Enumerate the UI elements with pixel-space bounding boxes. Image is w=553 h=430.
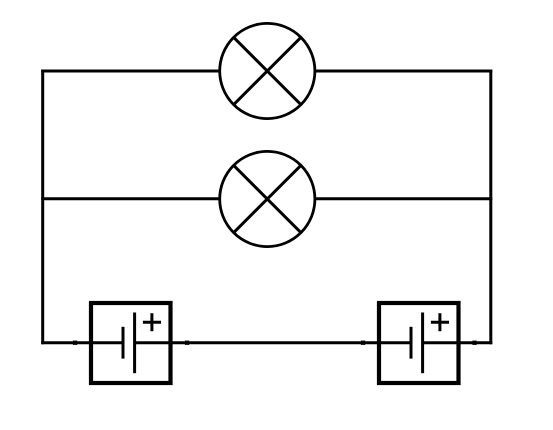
lamp L1 circle xyxy=(220,23,315,118)
battery B1 plus sign horizontal xyxy=(143,321,161,324)
battery B2 plus sign horizontal xyxy=(431,321,449,324)
battery B2 positive plate (long) xyxy=(421,313,424,374)
battery B1 box xyxy=(91,303,171,383)
wire top-right segment xyxy=(315,70,493,73)
lamp L2 circle xyxy=(220,151,315,246)
wire bottom-right segment B2 positive plate to right vertical xyxy=(423,341,492,344)
lamp L1 cross stroke 2 xyxy=(234,37,301,104)
battery B2 box xyxy=(379,303,459,383)
wire bottom-middle segment B1 positive plate to B2 negative plate xyxy=(135,341,412,344)
battery B1 plus sign vertical xyxy=(150,313,153,331)
battery B1 xyxy=(73,303,189,383)
battery B1 negative plate (short) xyxy=(122,327,125,359)
wire left vertical xyxy=(41,70,44,345)
lamp L1 cross stroke 1 xyxy=(234,37,301,104)
wire middle-right segment xyxy=(315,197,493,200)
battery B2 xyxy=(361,303,477,383)
wire middle-left segment xyxy=(41,197,220,200)
battery B1 positive plate (long) xyxy=(133,313,136,374)
lamp L2 cross stroke 1 xyxy=(234,165,301,232)
wire top-left segment xyxy=(41,70,220,73)
lamp L2 cross stroke 2 xyxy=(234,165,301,232)
wire right vertical xyxy=(489,70,492,345)
battery B2 right terminal dot xyxy=(472,341,476,345)
wire bottom-left segment to B1 negative plate xyxy=(41,341,123,344)
battery B2 negative plate (short) xyxy=(410,327,413,359)
battery B1 right terminal dot xyxy=(185,341,189,345)
battery B2 left terminal dot xyxy=(361,341,365,345)
battery B2 plus sign vertical xyxy=(438,313,441,331)
battery B1 left terminal dot xyxy=(73,341,77,345)
